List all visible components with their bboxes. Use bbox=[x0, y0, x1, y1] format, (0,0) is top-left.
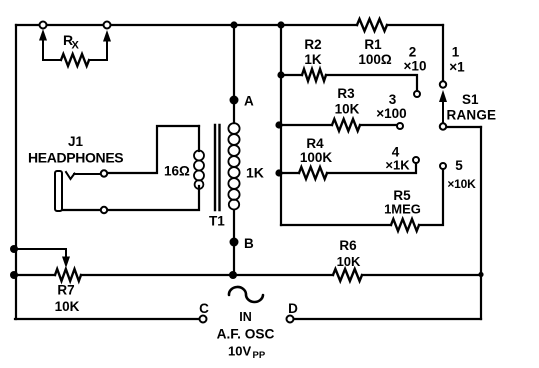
wire right lower vertical bbox=[480, 127, 482, 319]
svg-text:3: 3 bbox=[389, 92, 397, 107]
node A bbox=[230, 94, 255, 109]
wire ladder bus bbox=[280, 25, 282, 225]
source sine bbox=[217, 287, 275, 361]
svg-text:×1: ×1 bbox=[449, 60, 465, 75]
junction bus / row 4 bbox=[275, 169, 282, 176]
transformer T1 bbox=[164, 123, 264, 228]
svg-text:1: 1 bbox=[452, 45, 460, 60]
junction bus / row 2 bbox=[277, 71, 284, 78]
wire center vertical A-B bbox=[233, 25, 235, 275]
switch S1 bbox=[440, 81, 497, 129]
contact 5 bbox=[440, 158, 476, 191]
svg-text:5: 5 bbox=[455, 158, 463, 173]
junction left rail / R7 wiper bbox=[10, 245, 18, 253]
wire primary top drop bbox=[198, 126, 200, 151]
svg-text:R6: R6 bbox=[339, 238, 357, 253]
wire row 2 bbox=[281, 75, 417, 91]
wire S1 contact 1 drop bbox=[442, 25, 444, 81]
junction node B line / R6 row bbox=[229, 271, 237, 279]
resistor R3 bbox=[332, 86, 360, 131]
svg-text:16Ω: 16Ω bbox=[164, 164, 190, 179]
resistor R1 bbox=[357, 19, 392, 67]
resistor R4 bbox=[299, 136, 332, 179]
wire left rail bbox=[15, 25, 17, 319]
svg-text:100K: 100K bbox=[300, 150, 333, 165]
svg-text:S1: S1 bbox=[462, 92, 479, 107]
jack J1 bbox=[28, 134, 123, 213]
resistor R5 bbox=[384, 188, 421, 231]
wire top rail bbox=[16, 24, 443, 26]
probe terminal left bbox=[40, 22, 47, 29]
potentiometer R7 bbox=[14, 249, 81, 314]
junction top rail / node A branch bbox=[230, 21, 237, 28]
junction left rail / R7 row bbox=[10, 271, 18, 279]
junction top rail / ladder bus bbox=[277, 21, 284, 28]
svg-text:100Ω: 100Ω bbox=[358, 52, 392, 67]
svg-text:×10K: ×10K bbox=[447, 177, 476, 191]
contact 3 bbox=[376, 92, 406, 129]
wire jack top to primary bbox=[107, 126, 199, 173]
svg-text:A: A bbox=[244, 94, 254, 109]
contact 4 bbox=[385, 145, 419, 173]
svg-text:C: C bbox=[199, 301, 209, 316]
svg-text:IN: IN bbox=[239, 310, 252, 324]
wire row 4 bbox=[279, 163, 416, 173]
wire row 3 bbox=[279, 124, 397, 126]
svg-text:R2: R2 bbox=[304, 37, 321, 52]
svg-text:R1: R1 bbox=[364, 37, 382, 52]
resistor R6 bbox=[333, 238, 362, 281]
wire row 5 bbox=[281, 169, 443, 225]
resistor RX bbox=[40, 31, 111, 67]
contact 1 bbox=[449, 45, 465, 75]
svg-text:10K: 10K bbox=[335, 102, 360, 117]
wire jack bottom to primary bbox=[57, 186, 199, 210]
wire S1 pole to right bbox=[446, 126, 481, 128]
svg-text:×100: ×100 bbox=[376, 106, 406, 121]
terminal C bbox=[199, 301, 209, 323]
svg-text:R4: R4 bbox=[306, 136, 324, 151]
svg-text:T1: T1 bbox=[209, 214, 225, 229]
svg-text:10K: 10K bbox=[55, 299, 80, 314]
svg-text:1K: 1K bbox=[246, 165, 264, 181]
svg-text:J1: J1 bbox=[68, 134, 84, 149]
svg-text:×10: ×10 bbox=[404, 59, 427, 74]
svg-text:PP: PP bbox=[253, 350, 266, 361]
svg-text:HEADPHONES: HEADPHONES bbox=[28, 150, 123, 166]
junction R6 row / right vertical bbox=[478, 272, 483, 277]
terminal D bbox=[287, 301, 299, 323]
svg-text:×1K: ×1K bbox=[385, 158, 410, 173]
svg-text:1K: 1K bbox=[304, 52, 322, 67]
junction bus / row 3 bbox=[275, 121, 282, 128]
svg-text:RANGE: RANGE bbox=[447, 108, 497, 123]
wire R6 row bbox=[15, 274, 481, 276]
svg-text:10V: 10V bbox=[228, 344, 251, 359]
svg-text:A.F. OSC: A.F. OSC bbox=[217, 327, 275, 342]
node B bbox=[230, 236, 255, 251]
wire bottom rail left bbox=[15, 318, 199, 320]
svg-text:R7: R7 bbox=[57, 283, 74, 298]
resistor R2 bbox=[302, 37, 326, 81]
svg-text:1MEG: 1MEG bbox=[384, 202, 421, 217]
svg-text:X: X bbox=[72, 40, 80, 52]
wire bottom rail right bbox=[294, 318, 481, 320]
svg-text:D: D bbox=[288, 301, 298, 316]
probe terminal right bbox=[104, 22, 111, 29]
svg-text:2: 2 bbox=[409, 45, 417, 60]
contact 2 bbox=[404, 45, 427, 98]
svg-text:10K: 10K bbox=[337, 254, 361, 269]
svg-text:B: B bbox=[244, 236, 254, 251]
svg-text:R3: R3 bbox=[337, 86, 355, 101]
